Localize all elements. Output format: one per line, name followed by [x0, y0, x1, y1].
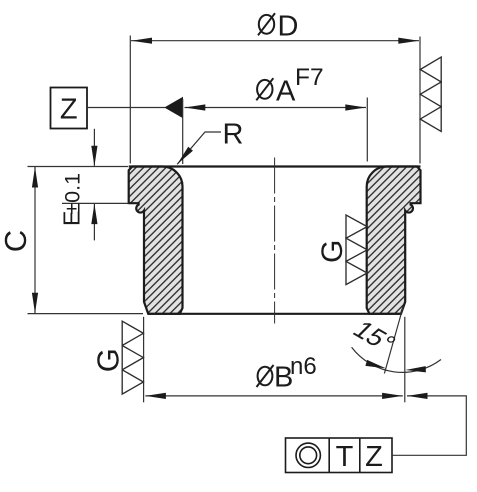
bushing right wall section (hatched) [367, 167, 421, 314]
svg-text:A: A [276, 75, 296, 107]
svg-text:E±0.1: E±0.1 [59, 173, 85, 226]
dimension ØB extension line right [404, 317, 406, 403]
dimension ØB extension line left [143, 317, 145, 403]
dimension ØD extension line right [419, 37, 421, 164]
datum Z box [51, 88, 88, 129]
surface finish triangles on bore ØA (middle) [346, 215, 367, 285]
dimension ØD line [131, 40, 419, 42]
svg-text:n6: n6 [290, 353, 317, 380]
tolerance frame (concentricity T Z) [286, 438, 393, 473]
extension line collar underside [62, 202, 129, 204]
datum triangle (filled) [164, 97, 183, 118]
dimension E lines [93, 129, 95, 166]
dimension ØA extension line right [366, 98, 368, 162]
svg-text:G: G [91, 348, 126, 372]
svg-text:T: T [336, 441, 354, 473]
label ØA [256, 78, 273, 100]
surface finish triangles on ØD (top right) [420, 57, 441, 131]
svg-text:R: R [223, 119, 244, 151]
extension line top face left [28, 166, 129, 168]
label ØD [258, 13, 275, 35]
dimension ØD extension line left [129, 36, 131, 164]
bottom face edge [148, 313, 401, 315]
dimension ØB line [145, 395, 403, 397]
centerline axis [274, 158, 276, 324]
datum extension line [182, 99, 184, 164]
angle dimension arc [352, 347, 441, 372]
bushing left wall section (hatched) [129, 167, 183, 314]
top face edge [129, 165, 421, 167]
svg-text:Z: Z [365, 441, 383, 473]
svg-text:G: G [316, 240, 349, 263]
dimension C line [34, 167, 36, 313]
label ØB [257, 365, 274, 387]
datum Z leader [87, 107, 165, 109]
svg-text:C: C [0, 230, 33, 252]
svg-text:D: D [278, 11, 299, 43]
tolerance frame leader [392, 396, 466, 455]
svg-text:Z: Z [60, 94, 78, 126]
leader R [177, 132, 221, 164]
extension line bottom face left [28, 313, 144, 315]
svg-text:F7: F7 [295, 64, 324, 91]
surface finish triangles on ØB (bottom left) [122, 321, 143, 394]
chamfer 15° extension line [384, 307, 403, 374]
dimension ØA line [185, 107, 367, 109]
